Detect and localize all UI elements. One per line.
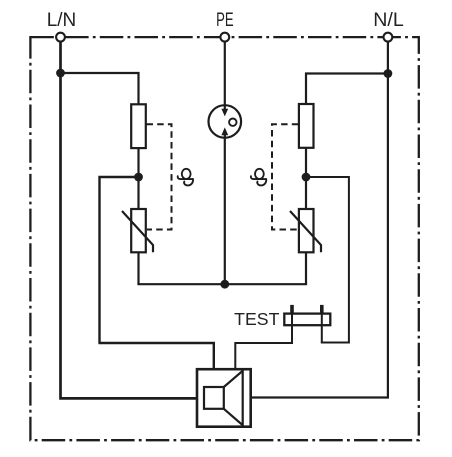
wire right fuse to varistor	[305, 148, 307, 209]
wire PE upper with arrow into spark gap	[224, 40, 226, 110]
gas discharge tube gas-filled dot	[229, 119, 236, 126]
varistor RV1 (left)	[122, 209, 153, 252]
label theta left	[178, 169, 193, 186]
wire N/L junction to right fuse	[306, 74, 388, 105]
svg-text:N/L: N/L	[373, 10, 404, 31]
dashed thermal link left	[147, 124, 172, 229]
dashed thermal link right	[272, 124, 298, 229]
wire test right pin to right branch junction	[306, 177, 349, 343]
varistor RV2 (right)	[290, 209, 321, 252]
wire PE rail	[137, 283, 307, 285]
wire left junction to sounder (thick)	[98, 177, 213, 370]
terminal L/N	[56, 33, 65, 42]
sounder speaker cone	[224, 371, 243, 425]
terminal PE	[220, 33, 229, 42]
wire N/L main path	[251, 40, 389, 398]
svg-text:L/N: L/N	[47, 10, 77, 31]
node junction dot on L/N	[56, 69, 65, 78]
test button S1 bar	[284, 314, 330, 326]
sounder speaker square	[204, 387, 224, 409]
sounder box	[197, 369, 251, 427]
svg-text:TEST: TEST	[234, 309, 280, 329]
node junction dot on N/L	[384, 69, 393, 78]
wire L/N junction to left fuse	[61, 73, 139, 104]
node PE rail junction dot	[220, 280, 229, 289]
gas discharge tube U1 circle	[209, 105, 242, 138]
label theta right	[251, 169, 266, 186]
node junction dot left branch	[134, 173, 143, 182]
wire left fuse to varistor	[137, 148, 139, 209]
thermal disconnector F1 (left)	[131, 104, 146, 148]
terminal N/L	[384, 33, 393, 42]
test button left pin	[291, 306, 293, 343]
svg-text:PE: PE	[216, 10, 234, 31]
node junction dot right branch	[302, 173, 311, 182]
test button right pin	[321, 306, 323, 343]
thermal disconnector F2 (right)	[299, 104, 314, 148]
wire left varistor to PE rail	[137, 252, 139, 284]
wire right varistor to PE rail	[305, 252, 307, 284]
wire test left pin to sounder	[235, 343, 293, 370]
wire PE lower with arrow into spark gap	[224, 135, 226, 285]
enclosure dash-dot border	[30, 37, 418, 440]
wire L/N main path (thick)	[59, 40, 197, 398]
